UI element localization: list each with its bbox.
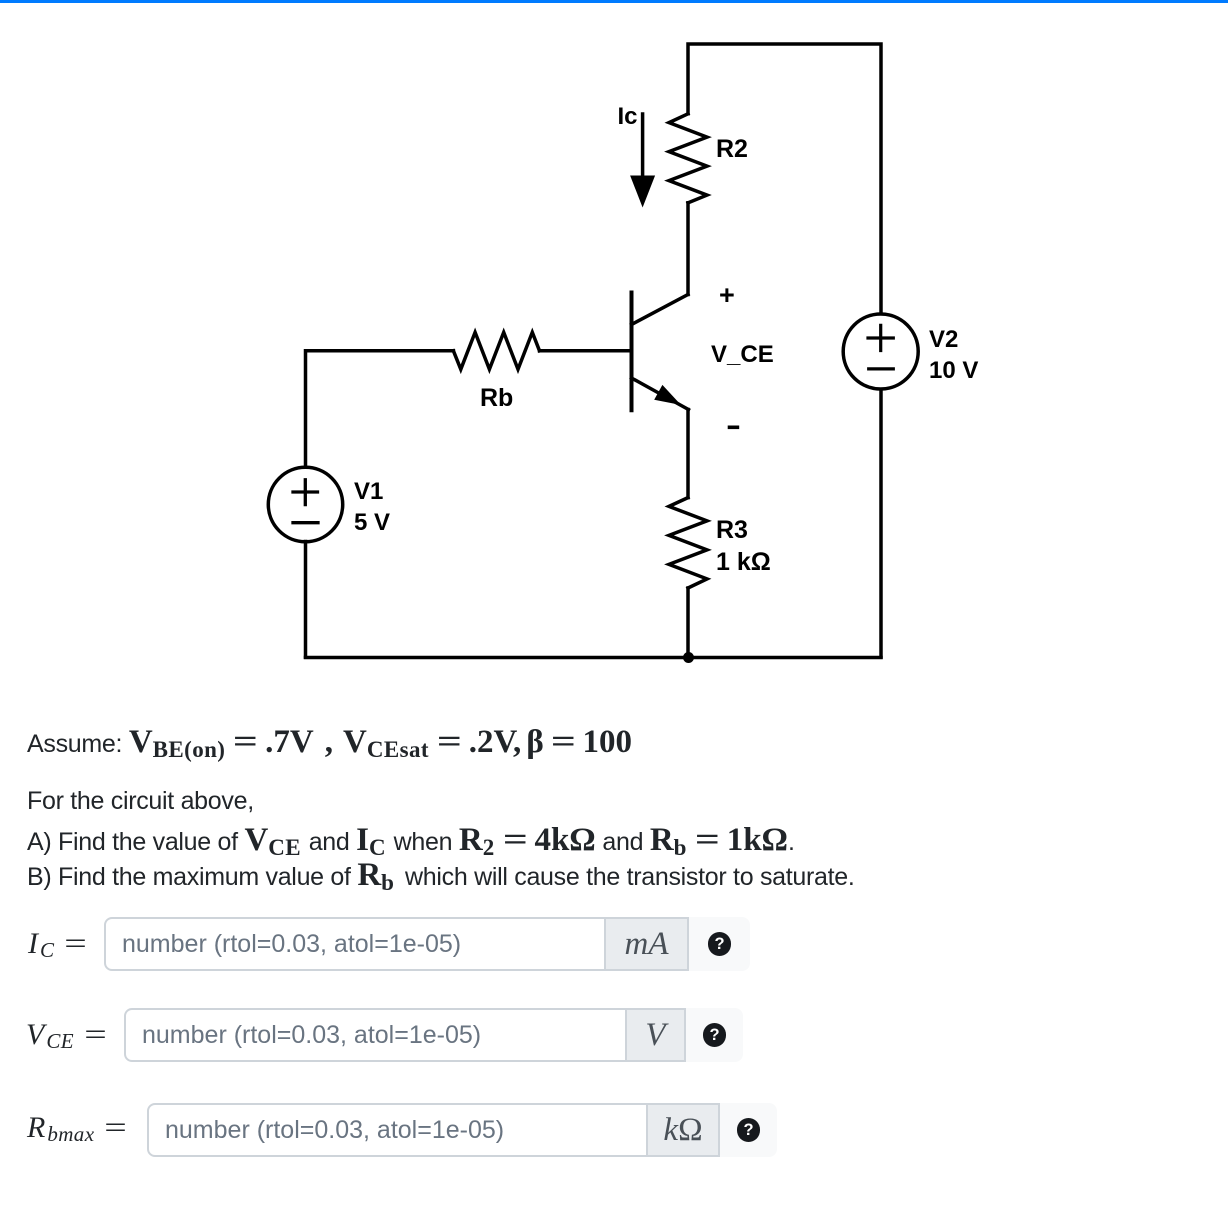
svg-text:Ic: Ic bbox=[618, 103, 638, 130]
svg-text:5 V: 5 V bbox=[354, 509, 390, 536]
wire R3 to bottom rail bbox=[686, 588, 690, 657]
paragraph: for the circuit above bbox=[27, 784, 254, 819]
transistor Q1 collector lead bbox=[632, 295, 689, 325]
current arrow Ic bbox=[630, 114, 655, 208]
svg-text:V1: V1 bbox=[354, 478, 383, 505]
row 1: Ic input bbox=[28, 926, 84, 968]
svg-text:10 V: 10 V bbox=[929, 357, 978, 384]
wire collector vertical bbox=[686, 203, 690, 295]
label - (VCE minus) bbox=[730, 425, 738, 429]
svg-text:V2: V2 bbox=[929, 326, 958, 353]
voltage source V1 bbox=[268, 467, 342, 541]
wire emitter vertical bbox=[686, 410, 690, 498]
transistor Q1 base bar bbox=[630, 293, 634, 411]
wire bottom rail bbox=[306, 656, 882, 660]
wire right lower bbox=[879, 390, 883, 658]
top blue bar bbox=[0, 0, 1228, 3]
svg-text:V_CE: V_CE bbox=[711, 341, 774, 368]
node junction dot bbox=[683, 652, 694, 663]
svg-text:R2: R2 bbox=[716, 135, 748, 163]
voltage source V2 bbox=[843, 314, 918, 389]
wire V1 to bottom rail bbox=[304, 542, 308, 658]
wire base left segment bbox=[306, 351, 454, 468]
resistor Rb bbox=[453, 332, 539, 369]
svg-text:+: + bbox=[719, 280, 735, 310]
wire top rail bbox=[688, 44, 881, 314]
svg-text:1 kΩ: 1 kΩ bbox=[716, 548, 771, 576]
transistor Q1 emitter lead bbox=[632, 378, 689, 410]
resistor R2 bbox=[669, 114, 707, 203]
assume line bbox=[27, 724, 632, 768]
row 3: Rbmax input bbox=[27, 1110, 124, 1152]
circuit schematic bbox=[0, 0, 1228, 700]
row 2: Vce input bbox=[26, 1017, 104, 1059]
wire base right segment bbox=[540, 349, 632, 353]
transistor Q1 emitter arrow bbox=[654, 385, 681, 405]
resistor R3 bbox=[669, 498, 707, 588]
svg-text:Rb: Rb bbox=[480, 384, 513, 412]
svg-text:R3: R3 bbox=[716, 516, 748, 544]
